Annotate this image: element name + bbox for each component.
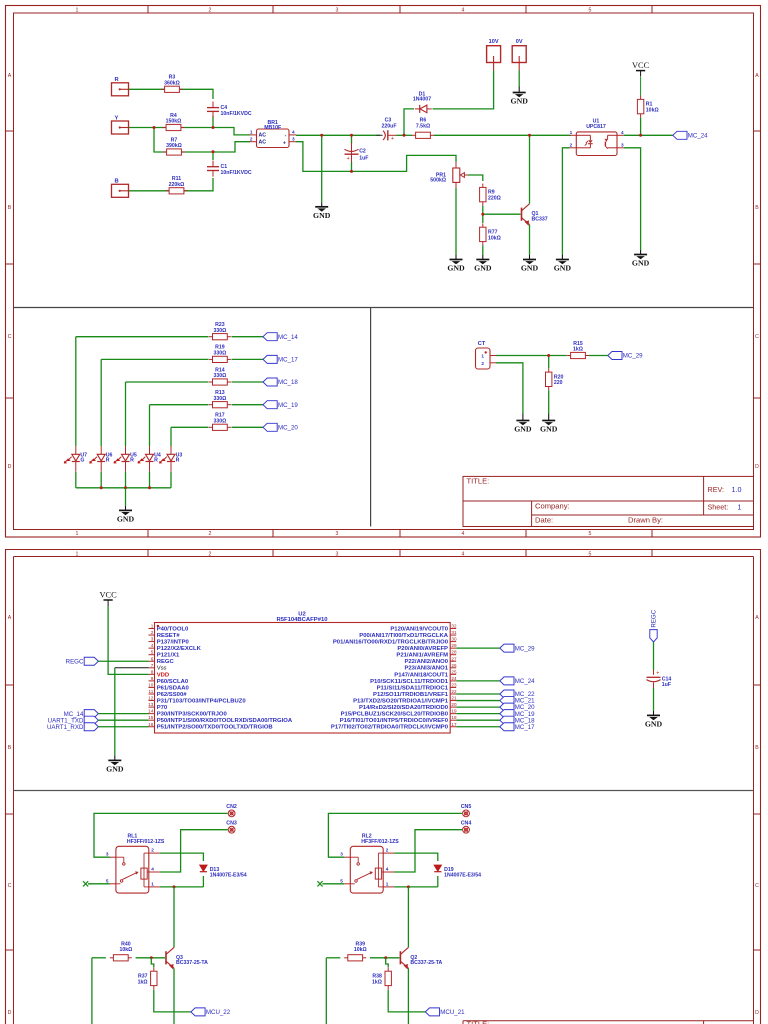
- wire emitter Q3: [173, 968, 175, 1024]
- wire VCC to VDD pin: [108, 606, 148, 674]
- section divider horizontal sheet1: [14, 307, 754, 309]
- svg-text:10nF/1KVDC: 10nF/1KVDC: [221, 111, 252, 117]
- wire CN4 to relay pin4: [394, 830, 462, 872]
- transistor Q3 BC337-25-TA: [165, 951, 167, 964]
- relay RL2 HF3FF/012-1ZS: [350, 846, 383, 893]
- U2 right pin 19 P15/PCLBUZ1/SCK20/SCL20/TRDIOB0: [450, 713, 456, 715]
- svg-text:30: 30: [451, 637, 457, 642]
- svg-text:8: 8: [151, 669, 154, 674]
- wire LED row MC_17: [101, 358, 208, 360]
- svg-text:0V: 0V: [516, 39, 523, 45]
- U2 right pin 30 P01/ANI16/TO00/RXD1/TRGCLKB/TRJIO0: [450, 641, 456, 643]
- svg-text:17: 17: [451, 722, 457, 727]
- svg-text:2: 2: [209, 531, 212, 537]
- svg-text:2: 2: [151, 847, 154, 852]
- svg-text:10kΩ: 10kΩ: [119, 947, 132, 953]
- svg-text:5: 5: [340, 878, 343, 883]
- svg-text:Date:: Date:: [535, 515, 553, 524]
- svg-text:1kΩ: 1kΩ: [573, 347, 583, 353]
- svg-text:P137/INTP0: P137/INTP0: [157, 640, 190, 646]
- wire U1 pin2 to GND: [562, 148, 569, 255]
- svg-text:360kΩ: 360kΩ: [164, 80, 180, 86]
- wire R7 out: [182, 142, 251, 152]
- svg-text:3: 3: [336, 531, 339, 537]
- svg-text:P23/ANI3/ANO1: P23/ANI3/ANO1: [404, 666, 448, 672]
- wire LED row MC_18: [126, 381, 209, 383]
- svg-text:B: B: [8, 745, 12, 751]
- resistor R9: [482, 184, 484, 188]
- svg-text:7.5kΩ: 7.5kΩ: [416, 123, 430, 129]
- net flag MC_14 left: [84, 710, 98, 718]
- svg-text:REGC: REGC: [651, 609, 658, 627]
- wire emitter Q2: [407, 968, 409, 1024]
- svg-text:GND: GND: [474, 264, 492, 273]
- svg-text:MCU_21: MCU_21: [440, 1009, 465, 1016]
- ground U1 pin3: [640, 250, 642, 255]
- resistor R39: [344, 957, 348, 959]
- svg-text:P12/SO11/TRDIOB1/VREF1: P12/SO11/TRDIOB1/VREF1: [373, 692, 449, 698]
- U2 left pin 15 P50/INTP1/SI00/RXD0/TOOLRXD/SDA00/TRGIOA: [149, 719, 155, 721]
- svg-text:CN3: CN3: [226, 821, 237, 827]
- svg-text:R: R: [176, 458, 180, 464]
- capacitor C3 220uF polarized horizontal: [376, 134, 382, 136]
- svg-text:3: 3: [106, 852, 109, 857]
- svg-text:11: 11: [149, 689, 154, 694]
- junction dots rail: [320, 134, 323, 137]
- svg-text:GND: GND: [106, 764, 124, 773]
- U2 right pin 21 P13/TXD2/SO20/TRDIOA1/IVCMP1: [450, 700, 456, 702]
- resistor R11: [166, 190, 170, 192]
- power box 0V: [512, 46, 526, 63]
- svg-text:29: 29: [451, 643, 457, 648]
- svg-text:P10/SCK11/SCL11/TRDIOD1: P10/SCK11/SCL11/TRDIOD1: [370, 679, 449, 685]
- svg-text:220: 220: [554, 380, 563, 386]
- net flag MC_24: [673, 131, 687, 139]
- svg-text:25: 25: [451, 669, 457, 674]
- U2 right pin 17 P17/TI02/TO02/TRDIOA0/TRDCLK/IVCMP0: [450, 726, 456, 728]
- svg-text:1: 1: [76, 8, 79, 14]
- resistor R3: [161, 88, 165, 90]
- svg-text:P13/TXD2/SO20/TRDIOA1/IVCMP1: P13/TXD2/SO20/TRDIOA1/IVCMP1: [353, 698, 449, 704]
- wire VCC to R1: [640, 77, 642, 96]
- wire U2 to MC_20: [456, 706, 500, 708]
- svg-text:16: 16: [148, 722, 154, 727]
- U2 left pin 7 Vss: [149, 667, 155, 669]
- U2 right pin 23 P11/SI11/SDA11/TRDIOC1: [450, 686, 456, 688]
- svg-text:330Ω: 330Ω: [213, 351, 226, 357]
- wire PR1 wiper to R9: [468, 175, 483, 181]
- svg-text:3: 3: [336, 552, 339, 558]
- svg-text:2: 2: [250, 137, 253, 142]
- U2 left pin 3 P137/INTP0: [149, 641, 155, 643]
- svg-text:10kΩ: 10kΩ: [488, 235, 501, 241]
- svg-text:1kΩ: 1kΩ: [372, 979, 382, 985]
- net flag MC_29 right: [500, 644, 514, 652]
- svg-text:1N4007E-E3/54: 1N4007E-E3/54: [444, 872, 481, 878]
- net flag MC_18 right: [500, 716, 514, 724]
- ground Q1: [529, 255, 531, 260]
- svg-text:28: 28: [451, 650, 457, 655]
- svg-text:4: 4: [462, 552, 465, 558]
- svg-text:3: 3: [151, 637, 154, 642]
- svg-text:P21/ANI1/AVREFM: P21/ANI1/AVREFM: [396, 653, 448, 659]
- svg-text:GND: GND: [632, 259, 650, 268]
- transistor Q1 BC337: [521, 208, 523, 221]
- svg-text:A: A: [755, 615, 759, 621]
- svg-text:D: D: [755, 1010, 759, 1016]
- svg-text:P62/SS00#: P62/SS00#: [157, 692, 188, 698]
- net flag UART1_RXD: [84, 723, 98, 731]
- svg-text:4: 4: [462, 8, 465, 14]
- ground Vss: [114, 755, 116, 760]
- net flag MC_22 right: [500, 690, 514, 698]
- svg-text:P61/SDAA0: P61/SDAA0: [157, 685, 190, 691]
- wire R1 to rail: [640, 118, 642, 136]
- wire CN2 to relay pin3: [94, 813, 228, 857]
- relay RL1 HF3FF/012-1ZS: [116, 846, 149, 893]
- junction dot base Q2: [384, 956, 387, 959]
- svg-text:14: 14: [148, 709, 154, 714]
- net flag MC_19 right: [500, 710, 514, 718]
- wire collector Q3: [173, 887, 175, 948]
- ground R77: [482, 255, 484, 260]
- wire U2 to MC_22: [456, 693, 500, 695]
- potentiometer PR1 500k: [453, 168, 460, 182]
- U2 left pin 5 P121/X1: [149, 654, 155, 656]
- wire R6 to U1 pin1: [434, 134, 571, 136]
- svg-text:4: 4: [462, 531, 465, 537]
- svg-text:MC_20: MC_20: [278, 424, 298, 431]
- svg-text:UPC817: UPC817: [586, 124, 606, 130]
- svg-text:B: B: [8, 205, 12, 211]
- ground below 0V: [518, 87, 520, 93]
- svg-text:1: 1: [250, 130, 253, 135]
- resistor R38: [387, 967, 389, 971]
- U2 right pin 26 P23/ANI3/ANO1: [450, 667, 456, 669]
- U2 left pin 6 REGC: [149, 660, 155, 662]
- svg-text:10kΩ: 10kΩ: [646, 108, 659, 114]
- svg-text:D: D: [8, 464, 12, 470]
- no-connect X relay RL1 pin5: [88, 883, 110, 885]
- svg-text:32: 32: [451, 624, 457, 629]
- U2 right pin 28 P21/ANI1/AVREFM: [450, 654, 456, 656]
- wire base junction to Q1: [483, 213, 521, 215]
- wire Y to R7: [154, 128, 166, 153]
- ground C14: [653, 711, 655, 716]
- net flag MC_21 right: [500, 697, 514, 705]
- wire U2 to MC_21: [456, 700, 500, 702]
- U2 left pin 2 RESET#: [149, 634, 155, 636]
- svg-text:P31/T103/TO03/INTP4/PCLBUZ0: P31/T103/TO03/INTP4/PCLBUZ0: [157, 698, 247, 704]
- section divider vertical sheet1: [370, 308, 372, 527]
- svg-text:1uF: 1uF: [359, 155, 368, 161]
- svg-text:1N4007: 1N4007: [413, 97, 431, 103]
- svg-text:P51/INTP2/SO00/TXD0/TOOLTXD/TR: P51/INTP2/SO00/TXD0/TOOLTXD/TRGIOB: [157, 725, 273, 731]
- svg-text:10nF/1KVDC: 10nF/1KVDC: [221, 170, 252, 176]
- connector CT: [476, 348, 491, 369]
- svg-text:2: 2: [151, 630, 154, 635]
- svg-text:MC_29: MC_29: [623, 353, 643, 360]
- svg-text:C: C: [8, 334, 12, 340]
- title block sheet2 partial: [463, 1020, 754, 1022]
- svg-text:9: 9: [151, 676, 154, 681]
- net flag MC_20 right: [500, 703, 514, 711]
- svg-text:MC_17: MC_17: [515, 724, 535, 731]
- U2 right pin 29 P20/ANI0/AVREFP: [450, 647, 456, 649]
- ground U1 pin2: [561, 255, 563, 260]
- U2 right pin 27 P22/ANI2/ANO0: [450, 660, 456, 662]
- wire bus to GND: [125, 488, 127, 506]
- net flag MCU_21: [425, 1008, 439, 1016]
- wire LED row MC_20: [171, 426, 209, 428]
- svg-text:P50/INTP1/SI00/RXD0/TOOLRXD/SD: P50/INTP1/SI00/RXD0/TOOLRXD/SDA00/TRGIOA: [157, 718, 293, 724]
- junction dots input network: [153, 126, 156, 129]
- wire U1 pin4 to MC_24: [624, 134, 673, 136]
- svg-text:+: +: [391, 136, 394, 142]
- LED U4: [149, 446, 151, 454]
- svg-text:150kΩ: 150kΩ: [166, 119, 182, 125]
- resistor R17: [209, 426, 213, 428]
- resistor R19: [209, 358, 213, 360]
- svg-text:P20/ANI0/AVREFP: P20/ANI0/AVREFP: [397, 646, 448, 652]
- svg-text:MC_29: MC_29: [515, 645, 535, 652]
- svg-text:HF3FF/012-1ZS: HF3FF/012-1ZS: [361, 839, 399, 845]
- svg-text:C: C: [755, 883, 759, 889]
- wire PR1 bottom to GND: [455, 188, 457, 255]
- U2 left pin 8 VDD: [149, 673, 155, 675]
- U2 right pin 20 P14/RxD2/SI20/SDA20/TRDIOD0: [450, 706, 456, 708]
- svg-text:MC_19: MC_19: [278, 402, 298, 409]
- connector CN2: [228, 810, 235, 817]
- svg-text:CN5: CN5: [461, 804, 472, 810]
- svg-text:R: R: [106, 458, 110, 464]
- svg-text:C2: C2: [359, 149, 366, 155]
- wire R20 to GND: [548, 390, 550, 413]
- wire REGC: [98, 660, 148, 662]
- svg-text:P121/X1: P121/X1: [157, 653, 180, 659]
- svg-text:1: 1: [738, 503, 742, 512]
- svg-text:VDD: VDD: [157, 672, 169, 678]
- wire B row: [129, 178, 214, 191]
- capacitor C4: [212, 102, 214, 108]
- wire BR1 pin3 down: [296, 142, 456, 172]
- resistor R37: [153, 967, 155, 971]
- svg-text:4: 4: [151, 866, 154, 871]
- wire R9 to base junction: [482, 206, 484, 223]
- MCU U2 R5F104BCAFP#10: [155, 623, 451, 734]
- svg-text:2: 2: [209, 8, 212, 14]
- svg-text:R5F104BCAFP#10: R5F104BCAFP#10: [276, 617, 328, 623]
- diode D13 1N4007E-E3/54: [200, 865, 207, 871]
- U2 left pin 11 P62/SS00#: [149, 693, 155, 695]
- net flag MC_18: [263, 378, 277, 386]
- svg-text:Y: Y: [115, 115, 119, 121]
- svg-text:VCC: VCC: [632, 61, 650, 70]
- wire after C3: [397, 134, 413, 136]
- wire R15 to MC_29: [589, 355, 608, 357]
- LED U7: [75, 446, 77, 454]
- svg-text:P11/SI11/SDA11/TRDIOC1: P11/SI11/SDA11/TRDIOC1: [377, 685, 449, 691]
- wire CT pin1 to R15: [496, 355, 567, 357]
- wire C14 to GND: [653, 682, 655, 688]
- resistor R1: [640, 96, 642, 100]
- ground R20: [548, 414, 550, 421]
- svg-text:REV:: REV:: [708, 485, 725, 494]
- U2 right pin 24 P10/SCK11/SCL11/TRDIOD1: [450, 680, 456, 682]
- net flag MC_29: [608, 352, 622, 360]
- svg-text:P22/ANI2/ANO0: P22/ANI2/ANO0: [404, 659, 448, 665]
- svg-text:5: 5: [106, 878, 109, 883]
- svg-text:P14/RxD2/SI20/SDA20/TRDIOD0: P14/RxD2/SI20/SDA20/TRDIOD0: [359, 705, 449, 711]
- svg-text:MC_17: MC_17: [278, 357, 298, 364]
- wire C2 branch: [351, 135, 353, 143]
- wire CN5 to relay pin3: [328, 813, 462, 857]
- U2 left pin 4 P122/X2/EXCLK: [149, 647, 155, 649]
- ground below rail: [321, 202, 323, 207]
- svg-text:B: B: [755, 205, 759, 211]
- svg-text:1: 1: [76, 531, 79, 537]
- svg-text:13: 13: [148, 702, 154, 707]
- svg-text:330Ω: 330Ω: [213, 396, 226, 402]
- svg-text:P00/ANI17/TI00/TxD1/TRGCLKA: P00/ANI17/TI00/TxD1/TRGCLKA: [359, 633, 448, 639]
- net flag MCU_22: [191, 1008, 205, 1016]
- svg-text:C: C: [8, 883, 12, 889]
- svg-text:5: 5: [589, 531, 592, 537]
- connector Y: [112, 121, 129, 134]
- svg-text:12: 12: [148, 696, 154, 701]
- wire R77 to GND: [482, 245, 484, 255]
- svg-text:4: 4: [292, 130, 295, 135]
- resistor R40: [110, 957, 114, 959]
- svg-text:20: 20: [451, 702, 457, 707]
- capacitor C14 1uF: [653, 670, 655, 675]
- svg-text:-: -: [285, 133, 287, 139]
- wire Q1 collector: [529, 135, 531, 204]
- wire C1 to junction: [212, 152, 214, 160]
- U2 left pin 10 P61/SDAA0: [149, 686, 155, 688]
- svg-text:GND: GND: [521, 264, 539, 273]
- svg-text:GND: GND: [514, 425, 532, 434]
- wire relay pin1 to transistor: [394, 886, 438, 888]
- svg-text:10V: 10V: [489, 39, 499, 45]
- wire relay pin2 to diode: [394, 853, 438, 861]
- svg-text:21: 21: [451, 696, 457, 701]
- svg-text:TITLE:: TITLE:: [467, 476, 490, 485]
- svg-text:CT: CT: [478, 341, 486, 347]
- svg-text:BC337: BC337: [532, 217, 548, 223]
- svg-text:18: 18: [451, 715, 457, 720]
- svg-text:CN4: CN4: [461, 821, 472, 827]
- svg-text:330Ω: 330Ω: [213, 418, 226, 424]
- svg-text:1kΩ: 1kΩ: [138, 979, 148, 985]
- svg-text:19: 19: [451, 709, 457, 714]
- svg-text:MC_18: MC_18: [278, 379, 298, 386]
- section divider horizontal sheet2: [14, 790, 754, 792]
- svg-text:Drawn By:: Drawn By:: [628, 515, 663, 524]
- no-connect X relay RL2 pin5: [322, 883, 344, 885]
- svg-text:2: 2: [386, 847, 389, 852]
- svg-text:220Ω: 220Ω: [488, 196, 501, 202]
- junction dot base: [481, 213, 484, 216]
- resistor R6: [412, 134, 416, 136]
- wire U2 to MC_29: [456, 647, 500, 649]
- svg-text:AC: AC: [259, 133, 267, 139]
- svg-text:6: 6: [151, 656, 154, 661]
- svg-text:1: 1: [570, 130, 573, 135]
- sheet border frame: [6, 6, 761, 538]
- wire LED row MC_14: [76, 336, 209, 338]
- svg-text:23: 23: [451, 682, 457, 687]
- wire relay pin1 to transistor: [160, 886, 204, 888]
- net flag MC_24 right: [500, 677, 514, 685]
- svg-text:26: 26: [451, 663, 457, 668]
- svg-text:RESET#: RESET#: [157, 633, 181, 639]
- svg-text:3: 3: [621, 142, 624, 147]
- svg-text:P40/TOOL0: P40/TOOL0: [157, 626, 189, 632]
- svg-text:10kΩ: 10kΩ: [354, 947, 367, 953]
- wire R row: [129, 89, 214, 99]
- net flag MC_14: [263, 333, 277, 341]
- svg-text:2: 2: [209, 552, 212, 558]
- U2 right pin 22 P12/SO11/TRDIOB1/VREF1: [450, 693, 456, 695]
- resistor R77: [482, 223, 484, 227]
- U2 left pin 13 P70: [149, 706, 155, 708]
- U2 right pin 18 P16/TI01/TO01/INTP5/TRDIOC0/IVREF0: [450, 719, 456, 721]
- wire GND branch from rail: [321, 135, 323, 202]
- svg-text:1.0: 1.0: [732, 485, 742, 494]
- svg-text:24: 24: [451, 676, 457, 681]
- svg-text:MC_24: MC_24: [515, 678, 535, 685]
- svg-text:P01/ANI16/TO00/RXD1/TRGCLKB/TR: P01/ANI16/TO00/RXD1/TRGCLKB/TRJIO0: [333, 640, 449, 646]
- svg-text:P70: P70: [157, 705, 168, 711]
- wire CN3 to relay pin4: [160, 830, 228, 872]
- wire U2 to MC_18: [456, 719, 500, 721]
- resistor R14: [209, 381, 213, 383]
- U2 right pin 25 P147/ANI18/COUT1: [450, 673, 456, 675]
- svg-text:MB10F: MB10F: [264, 125, 281, 131]
- svg-text:15: 15: [148, 715, 154, 720]
- svg-text:GND: GND: [447, 264, 465, 273]
- svg-text:1: 1: [481, 354, 484, 359]
- svg-text:GND: GND: [554, 264, 572, 273]
- svg-text:GND: GND: [313, 211, 331, 220]
- svg-text:2: 2: [570, 142, 573, 147]
- resistor R23: [209, 336, 213, 338]
- svg-text:Vss: Vss: [157, 666, 167, 672]
- svg-text:220uF: 220uF: [382, 124, 397, 130]
- power box 10V: [487, 46, 501, 63]
- ground LED bus: [125, 506, 127, 511]
- svg-text:390kΩ: 390kΩ: [166, 143, 182, 149]
- wire U2 to MC_24: [456, 680, 500, 682]
- U2 left pin 12 P31/T103/TO03/INTP4/PCLBUZ0: [149, 700, 155, 702]
- svg-text:4: 4: [621, 130, 624, 135]
- svg-text:R: R: [154, 458, 158, 464]
- U2 left pin 1 P40/TOOL0: [149, 628, 155, 630]
- svg-text:5: 5: [589, 552, 592, 558]
- svg-text:GND: GND: [511, 97, 529, 106]
- resistor R4: [163, 127, 167, 129]
- svg-text:P15/PCLBUZ1/SCK20/SCL20/TRDIOB: P15/PCLBUZ1/SCK20/SCL20/TRDIOB0: [341, 712, 449, 718]
- wire D1 to 10V: [433, 71, 494, 109]
- svg-text:+: +: [656, 670, 659, 676]
- svg-text:P147/ANI18/COUT1: P147/ANI18/COUT1: [394, 672, 448, 678]
- svg-text:MCU_22: MCU_22: [206, 1009, 231, 1016]
- wire R38 top: [386, 958, 389, 967]
- ground PR1: [455, 255, 457, 260]
- svg-text:P16/TI01/TO01/INTP5/TRDIOC0/IV: P16/TI01/TO01/INTP5/TRDIOC0/IVREF0: [340, 718, 449, 724]
- resistor R15: [567, 355, 571, 357]
